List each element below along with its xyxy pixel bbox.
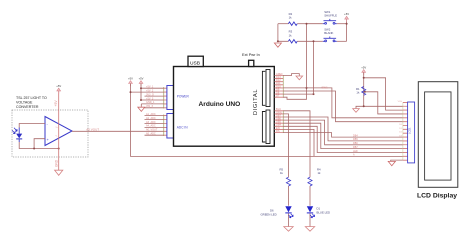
- svg-text:VIN_X: VIN_X: [146, 105, 154, 108]
- svg-text:+5V: +5V: [54, 100, 58, 107]
- svg-text:VSS: VSS: [398, 101, 403, 103]
- svg-text:DB5: DB5: [353, 138, 358, 141]
- svg-text:A0_VOUT: A0_VOUT: [146, 129, 158, 132]
- svg-text:A0 VOUT: A0 VOUT: [86, 127, 99, 131]
- svg-text:BLUE LED: BLUE LED: [317, 210, 331, 214]
- svg-text:DB4: DB4: [353, 134, 358, 137]
- svg-text:BLANK: BLANK: [324, 31, 333, 35]
- svg-text:DIGITAL: DIGITAL: [253, 89, 259, 115]
- svg-text:DB7: DB7: [353, 146, 358, 149]
- svg-text:LCD1: LCD1: [407, 127, 411, 134]
- svg-text:CONVERTER: CONVERTER: [16, 105, 39, 109]
- svg-text:D7: D7: [276, 94, 280, 98]
- svg-text:GND: GND: [55, 159, 59, 167]
- svg-text:GREEN LED: GREEN LED: [261, 212, 277, 216]
- svg-text:+5V_1: +5V_1: [146, 86, 154, 89]
- svg-text:SW1: SW1: [322, 86, 329, 90]
- svg-text:Arduino UNO: Arduino UNO: [199, 101, 241, 108]
- svg-text:A3_ADC: A3_ADC: [146, 121, 156, 124]
- svg-text:+5V_3: +5V_3: [146, 97, 154, 100]
- svg-text:A1_ADC: A1_ADC: [146, 113, 156, 116]
- svg-text:LCD Display: LCD Display: [417, 193, 457, 200]
- svg-text:VOLTAGE: VOLTAGE: [16, 101, 33, 105]
- svg-text:+5V_2: +5V_2: [146, 89, 154, 92]
- svg-text:USB: USB: [190, 61, 200, 67]
- svg-text:3V3_O: 3V3_O: [146, 93, 154, 96]
- svg-text:LED: LED: [353, 150, 358, 153]
- svg-text:RS: RS: [276, 129, 280, 133]
- svg-text:SHUFFLE: SHUFFLE: [324, 13, 337, 17]
- svg-text:A2_ADC: A2_ADC: [146, 117, 156, 120]
- svg-text:A5_ADC: A5_ADC: [146, 133, 156, 136]
- svg-text:ADC IN: ADC IN: [177, 125, 189, 129]
- svg-text:GND_1: GND_1: [146, 101, 155, 104]
- svg-text:A4_ADC: A4_ADC: [146, 125, 156, 128]
- svg-text:Ext Pwr In: Ext Pwr In: [242, 52, 260, 57]
- svg-text:TSL 257 LIGHT TO: TSL 257 LIGHT TO: [16, 96, 47, 100]
- svg-text:V-: V-: [56, 136, 58, 138]
- svg-text:DB6: DB6: [353, 142, 358, 145]
- svg-text:POWER: POWER: [177, 94, 190, 98]
